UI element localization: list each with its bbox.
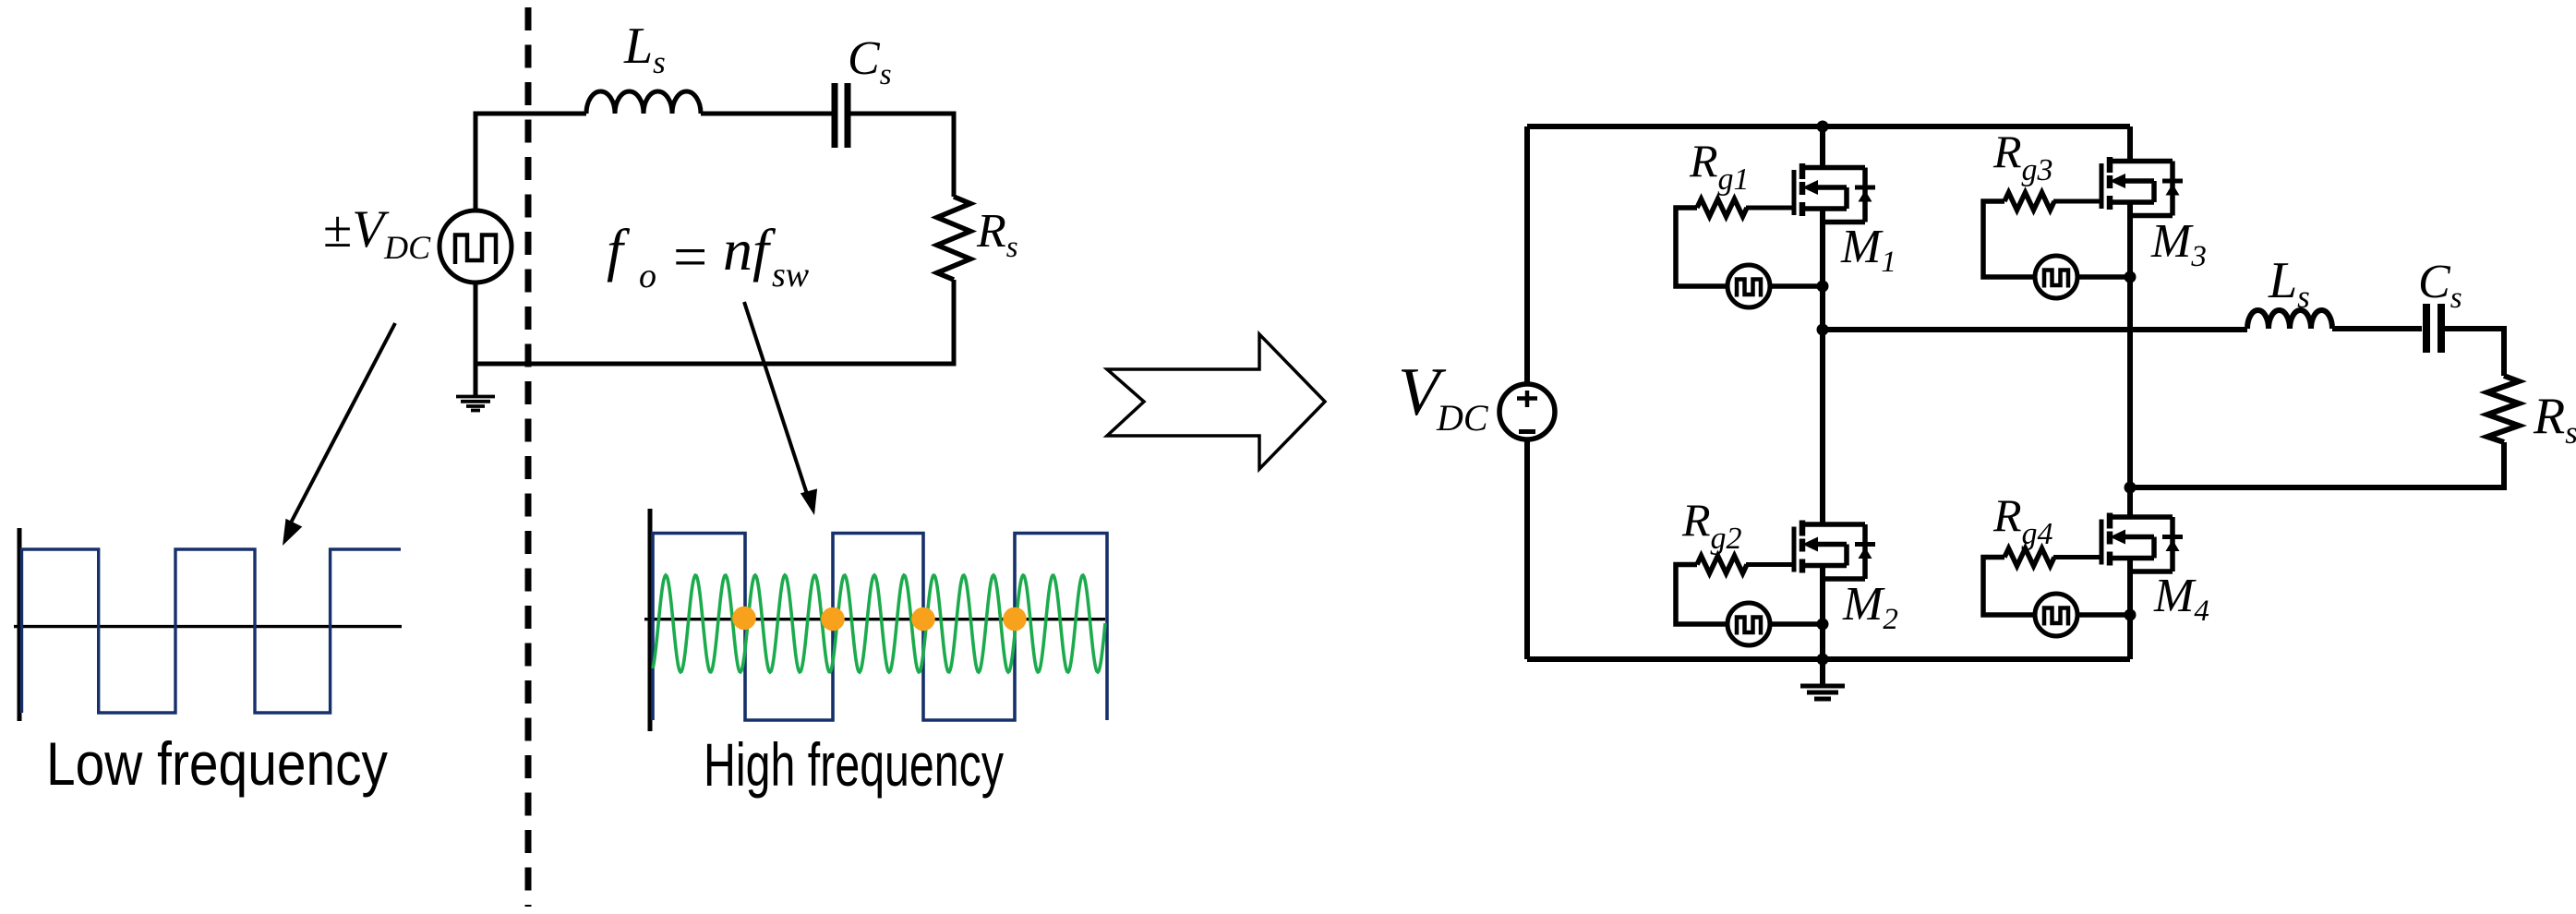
square-wave source ±VDC	[439, 210, 512, 283]
junction M3 gate-drive on leg	[2125, 271, 2137, 283]
svg-text:o: o	[639, 257, 656, 295]
wire gate loop left Rg1	[1676, 208, 1727, 286]
resistor Rg4	[2004, 548, 2054, 566]
low-frequency plot horizontal axis	[14, 625, 402, 628]
voltage source VDC	[1499, 384, 1555, 439]
sampling dot 1	[732, 607, 756, 631]
svg-text:DC: DC	[1436, 397, 1489, 439]
ground (left)	[456, 397, 495, 411]
inductor Ls (bridge)	[2247, 310, 2332, 329]
wire bottom rail	[1527, 656, 2130, 662]
wire from source top to inductor	[475, 114, 586, 211]
gate-drive square-wave source for Rg3	[2035, 256, 2077, 298]
wire gate lead Rg1	[1746, 206, 1794, 210]
wire resistor to bottom rail	[475, 280, 954, 364]
wire gate lead Rg4	[2053, 555, 2101, 559]
wire gate loop right Rg2	[1770, 621, 1823, 627]
sampling dot 3	[911, 607, 935, 631]
resistor Rg3	[2004, 193, 2054, 210]
junction bottom rail / ground	[1817, 654, 1829, 666]
formula fo = nfsw	[607, 217, 810, 295]
gate-drive square-wave source for Rg4	[2035, 594, 2077, 636]
svg-text:High frequency: High frequency	[704, 730, 1004, 799]
svg-text:nf: nf	[723, 217, 776, 283]
transistor M1	[1794, 163, 1875, 222]
wire output node to inductor	[1823, 327, 2247, 332]
gate-drive square-wave source for Rg2	[1727, 603, 1770, 645]
block arrow	[1107, 334, 1325, 469]
wire capacitor to right corner	[850, 114, 954, 197]
annotation arrow to high-frequency plot	[744, 302, 807, 494]
dashed divider line	[525, 7, 532, 907]
sampling dot 4	[1003, 607, 1027, 631]
wire inductor to capacitor (bridge)	[2332, 326, 2422, 331]
junction top rail / left leg	[1817, 121, 1829, 133]
junction M4 gate-drive on leg	[2125, 609, 2137, 621]
wire source bottom / ground stem	[474, 283, 478, 395]
wire right leg M3 drain	[2127, 126, 2133, 162]
resistor Rg1	[1697, 199, 1747, 217]
inductor Ls (left)	[586, 91, 701, 114]
high-frequency plot vertical axis	[648, 509, 653, 731]
svg-text:=: =	[673, 223, 707, 291]
high-frequency sine wave	[653, 575, 1105, 672]
transistor M3	[2101, 157, 2183, 216]
ground (bridge)	[1800, 686, 1845, 699]
high-frequency square wave	[653, 534, 1107, 721]
low-frequency plot vertical axis	[18, 528, 22, 721]
wire capacitor to resistor (bridge)	[2445, 329, 2504, 376]
wire ground stem (bridge)	[1820, 659, 1825, 684]
wire left leg M2 source to bottom rail	[1820, 566, 1825, 660]
resistor Rs (left)	[937, 197, 970, 280]
wire gate loop right Rg3	[2077, 274, 2130, 280]
wire gate loop right Rg1	[1770, 283, 1823, 289]
low-frequency square wave	[22, 549, 402, 713]
wire left rail above source	[1524, 126, 1530, 384]
transistor M2	[1794, 521, 1875, 580]
wire right leg M4 source to bottom rail	[2127, 559, 2133, 660]
wire gate loop right Rg4	[2077, 612, 2130, 618]
wire left leg M1 source to M2 drain	[1820, 209, 1825, 524]
wire inductor to capacitor	[701, 112, 832, 116]
sampling dot 2	[821, 607, 845, 631]
junction left leg output node	[1817, 324, 1829, 336]
wire top rail	[1527, 124, 2130, 129]
high-frequency plot horizontal axis	[644, 618, 1105, 620]
wire right leg M3 source to M4 drain	[2127, 202, 2133, 517]
wire gate loop left Rg4	[1983, 558, 2035, 616]
junction M2 gate-drive on leg	[1817, 619, 1829, 631]
capacitor Cs (bridge)	[2426, 304, 2441, 353]
svg-text:Low frequency: Low frequency	[46, 729, 388, 798]
wire left rail below source	[1524, 439, 1530, 659]
wire gate lead Rg3	[2053, 199, 2101, 204]
wire gate loop left Rg2	[1676, 565, 1727, 625]
capacitor Cs (left)	[835, 83, 848, 148]
transistor M4	[2101, 513, 2183, 572]
junction M1 gate-drive on leg	[1817, 281, 1829, 293]
resistor Rs (bridge)	[2487, 376, 2519, 442]
gate-drive square-wave source for Rg1	[1727, 265, 1770, 307]
wire gate loop left Rg3	[1983, 201, 2035, 277]
wire resistor back to right leg	[2130, 442, 2504, 487]
junction right leg output node	[2125, 482, 2137, 494]
wire left leg M1 drain	[1820, 126, 1825, 168]
svg-text:sw: sw	[772, 256, 810, 295]
resistor Rg2	[1697, 556, 1747, 573]
annotation arrow to low-frequency plot	[289, 323, 395, 526]
wire gate lead Rg2	[1746, 562, 1794, 567]
